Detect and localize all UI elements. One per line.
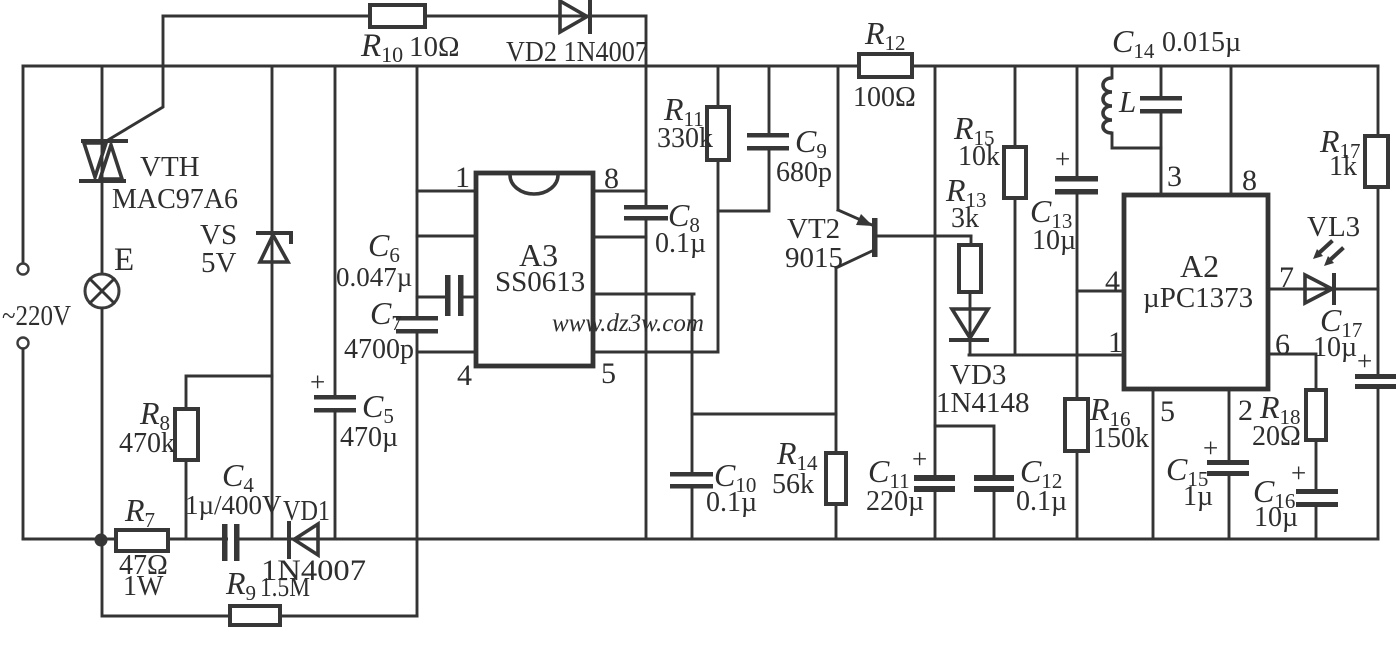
svg-text:8: 8 [604,162,619,195]
svg-text:1: 1 [455,161,470,194]
svg-text:8: 8 [1242,164,1257,197]
svg-text:+: + [1203,433,1218,463]
svg-text:6: 6 [1275,328,1290,361]
capacitor C13 [1055,176,1098,195]
svg-text:3: 3 [1167,160,1182,193]
svg-text:470k: 470k [119,428,175,459]
capacitor C10 [670,472,713,489]
resistor R16 [1065,399,1088,451]
svg-text:10µ: 10µ [1313,332,1357,363]
svg-text:2: 2 [1238,394,1253,427]
capacitor C10 line [691,294,694,472]
diode VD3 [951,309,988,340]
resistor R8 [175,409,198,460]
wire C5 to ground [334,412,337,539]
resistor R15 [1004,147,1026,198]
svg-text:10µ: 10µ [1254,502,1298,533]
svg-text:L: L [1118,84,1136,119]
resistor R11 line [717,66,720,352]
capacitor C9 [747,133,789,151]
wire top power rail [23,65,1378,68]
wire R8 top link [186,376,272,539]
inductor L [1103,66,1161,148]
svg-text:20Ω: 20Ω [1252,421,1301,452]
svg-text:~220V: ~220V [2,301,71,332]
capacitor C9 line [768,66,771,133]
resistor R9 [230,606,280,625]
svg-text:+: + [1357,346,1372,376]
wire C6/C7 pin line [416,66,419,316]
wire right edge R17/C17 line [1377,66,1380,374]
wire R9 branch left [102,539,417,616]
svg-text:4: 4 [457,359,472,392]
resistor R12 [859,54,912,77]
wire C15 to ground [1228,476,1231,539]
capacitor C15 [1207,460,1249,476]
resistor R18 [1306,390,1326,440]
resistor R14 [826,453,846,504]
svg-text:1: 1 [1108,326,1123,359]
svg-text:1µ/400V: 1µ/400V [185,490,282,520]
svg-text:0.1µ: 0.1µ [706,487,757,518]
svg-text:VD1: VD1 [283,496,330,527]
svg-text:+: + [912,444,927,474]
svg-text:680p: 680p [776,157,832,188]
svg-text:3k: 3k [951,203,979,234]
svg-text:5: 5 [601,357,616,390]
svg-text:0.015µ: 0.015µ [1162,27,1241,58]
svg-text:0.047µ: 0.047µ [336,262,412,292]
wire VD3 to A2 pin1 [969,354,1124,357]
wire A3 pin8 stub [593,190,646,193]
capacitor C11 line [934,66,937,475]
svg-text:9015: 9015 [785,242,843,274]
wire A3 pin5 stub to R11 [593,351,718,354]
wire C11 to ground [934,492,937,539]
svg-text:7: 7 [1279,261,1294,294]
svg-text:VL3: VL3 [1307,211,1360,243]
svg-text:0.1µ: 0.1µ [655,228,706,259]
wire A3 pin6 stub to C10 [593,293,694,296]
wire top trigger branch [163,15,646,18]
IC A2 uPC1373 [1124,195,1268,389]
svg-text:1µ: 1µ [1183,481,1213,512]
capacitor C6 [417,275,476,316]
svg-text:220µ: 220µ [866,486,924,517]
capacitor C5 line [334,66,337,395]
svg-text:µPC1373: µPC1373 [1143,282,1253,314]
wire A2 pin5 to ground [1152,389,1155,539]
wire A3 pin1 stub [417,190,476,193]
wire A2 pin4 stub [1077,290,1124,293]
transistor VT2 9015 [836,66,971,539]
LED VL3 [1305,242,1342,303]
lamp E [85,274,119,308]
svg-text:1N4148: 1N4148 [936,387,1029,419]
svg-text:MAC97A6: MAC97A6 [112,184,238,215]
wire triac gate lead [108,16,163,140]
wire A2 pin8 stub [1230,66,1233,195]
svg-text:A2: A2 [1180,248,1219,284]
wire bottom ground rail [23,538,1378,541]
capacitor C5 [314,395,356,413]
capacitor C12 link wire [935,426,994,475]
capacitor C17 [1355,374,1396,389]
wire C13/R16 line [1076,194,1079,539]
wire VD2 output down [645,16,648,205]
wire C8 to ground [645,220,648,539]
capacitor C8 [624,205,668,221]
svg-text:+: + [1055,144,1070,174]
svg-text:5: 5 [1160,395,1175,428]
capacitor C14 line [1160,66,1163,96]
wire A2 pin6 to R18 [1268,354,1316,489]
capacitor C11 [914,475,955,492]
IC A3 SS0613 [476,173,593,366]
wire A3 pin7 stub [593,236,646,239]
svg-text:SS0613: SS0613 [495,266,585,298]
wire left vertical upper to terminal [22,66,25,263]
wire A3 pin2 stub [417,235,476,238]
svg-text:4: 4 [1105,265,1120,298]
resistor R17 [1365,136,1388,187]
svg-text:E: E [114,242,134,278]
terminal upper ~220V [18,264,29,275]
wire C16 to ground [1315,507,1318,539]
resistor R11 [707,107,729,160]
resistor R7 [116,530,168,551]
svg-text:56k: 56k [772,469,814,500]
svg-text:5V: 5V [201,247,237,279]
svg-text:1.5M: 1.5M [260,572,310,602]
svg-text:+: + [310,367,325,397]
svg-text:VTH: VTH [140,151,200,183]
svg-text:330k: 330k [657,123,713,154]
zener VS line [271,66,274,539]
wire A3 pin4 stub [417,351,476,354]
svg-text:10k: 10k [958,141,1000,172]
wire C10 to ground [691,488,694,539]
wire lamp branch upper [101,66,104,140]
diode VD2 [560,1,590,32]
svg-text:100Ω: 100Ω [853,82,916,113]
svg-text:10µ: 10µ [1032,225,1076,256]
svg-text:0.1µ: 0.1µ [1016,486,1067,517]
wire C7 down to R9 branch [416,333,419,616]
resistor R15 line [1014,66,1017,355]
capacitor C4 [222,524,240,561]
wire A2 pin2 line [1228,389,1231,460]
wire lamp to ground rail [101,308,104,539]
svg-text:+: + [1291,458,1306,488]
svg-text:VD2 1N4007: VD2 1N4007 [506,37,648,68]
svg-text:150k: 150k [1093,423,1149,454]
wire left vertical lower [22,349,25,539]
capacitor C13 line [1076,66,1079,176]
wire C14 to A2 pin3 [1160,113,1163,195]
node junction dot R7/lamp [95,534,108,547]
wire A2 pin7 LED wire [1268,288,1378,291]
resistor R13 [959,236,981,355]
wire triac to lamp [101,181,104,274]
capacitor C7 [396,316,438,334]
svg-text:www.dz3w.com: www.dz3w.com [552,310,704,337]
terminal lower ~220V [18,338,29,349]
wire C9 bottom to R11 [718,150,769,211]
svg-text:470µ: 470µ [340,422,398,453]
svg-text:10Ω: 10Ω [409,31,460,63]
zener VS [258,233,291,262]
svg-text:VT2: VT2 [787,213,840,245]
capacitor C16 [1296,489,1338,507]
triac VTH MAC97A6 [81,141,126,181]
capacitor C14 [1140,96,1182,114]
resistor R10 [370,5,425,27]
wire C17 to ground [1377,389,1380,539]
svg-text:1W: 1W [123,571,164,602]
wire C12 to ground [993,492,996,539]
capacitor C12 [974,475,1014,492]
wire C10 to R14 collector link [692,413,836,416]
svg-text:1k: 1k [1329,151,1357,182]
svg-text:4700p: 4700p [344,334,414,365]
diode VD1 [289,523,318,557]
